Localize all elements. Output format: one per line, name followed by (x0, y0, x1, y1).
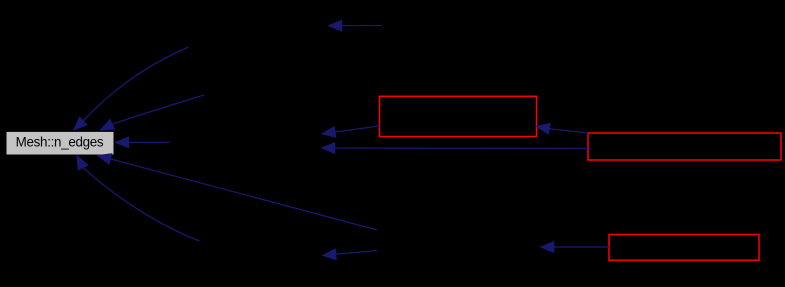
edge arrow 7 (from red node 1 to hidden node) (322, 126, 380, 137)
edge arrow 1 (top, into hidden caller node) (328, 20, 382, 31)
edge arrow 2 (curved, into Mesh::n_edges top-left) (74, 47, 189, 130)
red node 3 (truncated caller) (609, 235, 759, 261)
edge arrow 8 (long, from red node 2 to hidden node) (321, 143, 588, 154)
red node 2 (truncated caller) (588, 133, 781, 160)
svg-text:Mesh::n_edges: Mesh::n_edges (16, 135, 104, 150)
edge arrow 6 (curved, into Mesh::n_edges bottom-left) (77, 156, 200, 241)
edge arrow 5 (long diagonal, into Mesh::n_edges bottom) (97, 154, 377, 230)
red node 1 (truncated caller, 2-line label hidden) (380, 96, 537, 136)
edge arrow 9 (from red node 2 into red node 1) (536, 123, 588, 134)
edge arrow 3 (into Mesh::n_edges top) (100, 95, 204, 130)
node Mesh::n_edges (current node, grey) (6, 131, 114, 155)
edge arrow 10 (bottom, to hidden node) (323, 249, 378, 260)
edge arrow 11 (from red node 3 to hidden node) (541, 242, 610, 253)
edge arrow 4 (short horizontal, into Mesh::n_edges right) (115, 137, 169, 148)
